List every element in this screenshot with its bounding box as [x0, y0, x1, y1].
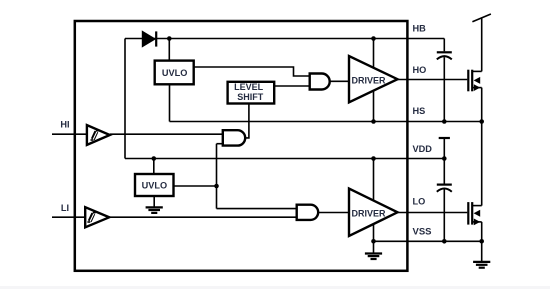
- ground power stage: [473, 241, 490, 267]
- ground driver2: [365, 241, 382, 259]
- wire LEVEL SHIFT output: [274, 85, 310, 87]
- node VDD cap tap: [442, 156, 447, 161]
- wire Q1 source to HS: [481, 88, 483, 122]
- wire UVLO1 output to AND1: [194, 67, 310, 76]
- wire UVLO2 output: [174, 185, 217, 187]
- wire LI buffer output: [109, 216, 297, 218]
- wire enable to AND3: [217, 208, 297, 210]
- svg-text:HO: HO: [413, 65, 427, 75]
- svg-text:HS: HS: [413, 106, 426, 116]
- transistor Q1 high side MOSFET: [468, 70, 481, 92]
- LEVEL SHIFT block: [228, 82, 275, 104]
- node diode cathode / UVLO1 tap: [167, 36, 172, 41]
- wire Q2 source to VSS: [481, 222, 483, 241]
- wire AND2 output to LEVEL SHIFT: [245, 105, 249, 138]
- wire HI buffer output: [110, 133, 223, 135]
- svg-text:LO: LO: [413, 197, 426, 207]
- wire HI input lead: [52, 133, 87, 135]
- HV supply tick: [472, 14, 491, 22]
- wire AND2 lower input: [217, 143, 223, 145]
- svg-text:VSS: VSS: [413, 226, 432, 236]
- diode D1 bootstrap: [142, 31, 156, 47]
- svg-text:HB: HB: [413, 24, 427, 34]
- IC boundary box: [75, 21, 408, 271]
- wire LO line: [398, 212, 468, 214]
- wire UVLO2 top lead: [153, 159, 155, 175]
- node HS driver tap: [371, 119, 376, 124]
- capacitor C1 bootstrap: [437, 39, 452, 122]
- svg-text:DRIVER: DRIVER: [352, 75, 387, 85]
- wire VDD riser x=125: [124, 39, 126, 159]
- svg-text:VDD: VDD: [413, 144, 433, 154]
- and-gate U2 top: [310, 74, 330, 90]
- UVLO block U1: [155, 61, 194, 85]
- node HB driver tap: [371, 36, 376, 41]
- wire driver2 top rail: [373, 159, 375, 201]
- wire HB line: [125, 38, 444, 40]
- wire HS line: [170, 121, 482, 123]
- wire VDD line: [125, 158, 444, 160]
- svg-text:SHIFT: SHIFT: [237, 92, 264, 102]
- svg-text:LEVEL: LEVEL: [234, 82, 264, 92]
- node VSS FET tap: [479, 239, 484, 244]
- wire VSS line: [374, 240, 482, 242]
- node HS FET tap: [479, 119, 484, 124]
- wire AND1 output to driver: [330, 80, 349, 82]
- svg-text:DRIVER: DRIVER: [352, 209, 387, 219]
- svg-text:LI: LI: [61, 203, 69, 213]
- wire UVLO1 bottom lead to HS: [169, 84, 171, 121]
- node VSS driver tap: [371, 239, 376, 244]
- wire driver1 bottom rail: [373, 91, 375, 122]
- VDD supply terminal bar: [439, 138, 450, 159]
- UVLO block U6 lower: [135, 174, 174, 196]
- and-gate U8 bottom: [297, 205, 318, 220]
- transistor Q2 low side MOSFET: [468, 202, 481, 225]
- driver U3 top DRIVER: [349, 56, 398, 102]
- wire LI input lead: [52, 216, 85, 218]
- wire enable riser x=216.5: [216, 144, 218, 209]
- svg-text:UVLO: UVLO: [142, 181, 168, 191]
- node VDD driver2 tap: [371, 156, 376, 161]
- node UVLO2 output tee: [214, 184, 219, 189]
- node VDD UVLO2 tap: [152, 156, 157, 161]
- ground UVLO2: [146, 196, 163, 213]
- and-gate U5 middle: [223, 130, 245, 145]
- wire HO line: [398, 79, 468, 81]
- svg-text:UVLO: UVLO: [162, 68, 188, 78]
- node HS cap tap: [442, 119, 447, 124]
- driver U9 bottom DRIVER: [349, 189, 398, 237]
- svg-text:HI: HI: [60, 119, 69, 129]
- wire driver2 bottom rail: [373, 224, 375, 241]
- wire driver1 top rail: [373, 39, 375, 69]
- schmitt buffer U7 LI input: [85, 207, 109, 227]
- node VSS cap tap: [442, 239, 447, 244]
- schmitt buffer U4 HI input: [87, 125, 110, 145]
- wire Q1 drain rail: [481, 18, 483, 71]
- wire UVLO1 top lead: [168, 39, 170, 61]
- wire switch node riser: [481, 122, 483, 206]
- capacitor C2 VDD bypass: [437, 159, 452, 242]
- wire AND3 output to driver: [318, 212, 349, 214]
